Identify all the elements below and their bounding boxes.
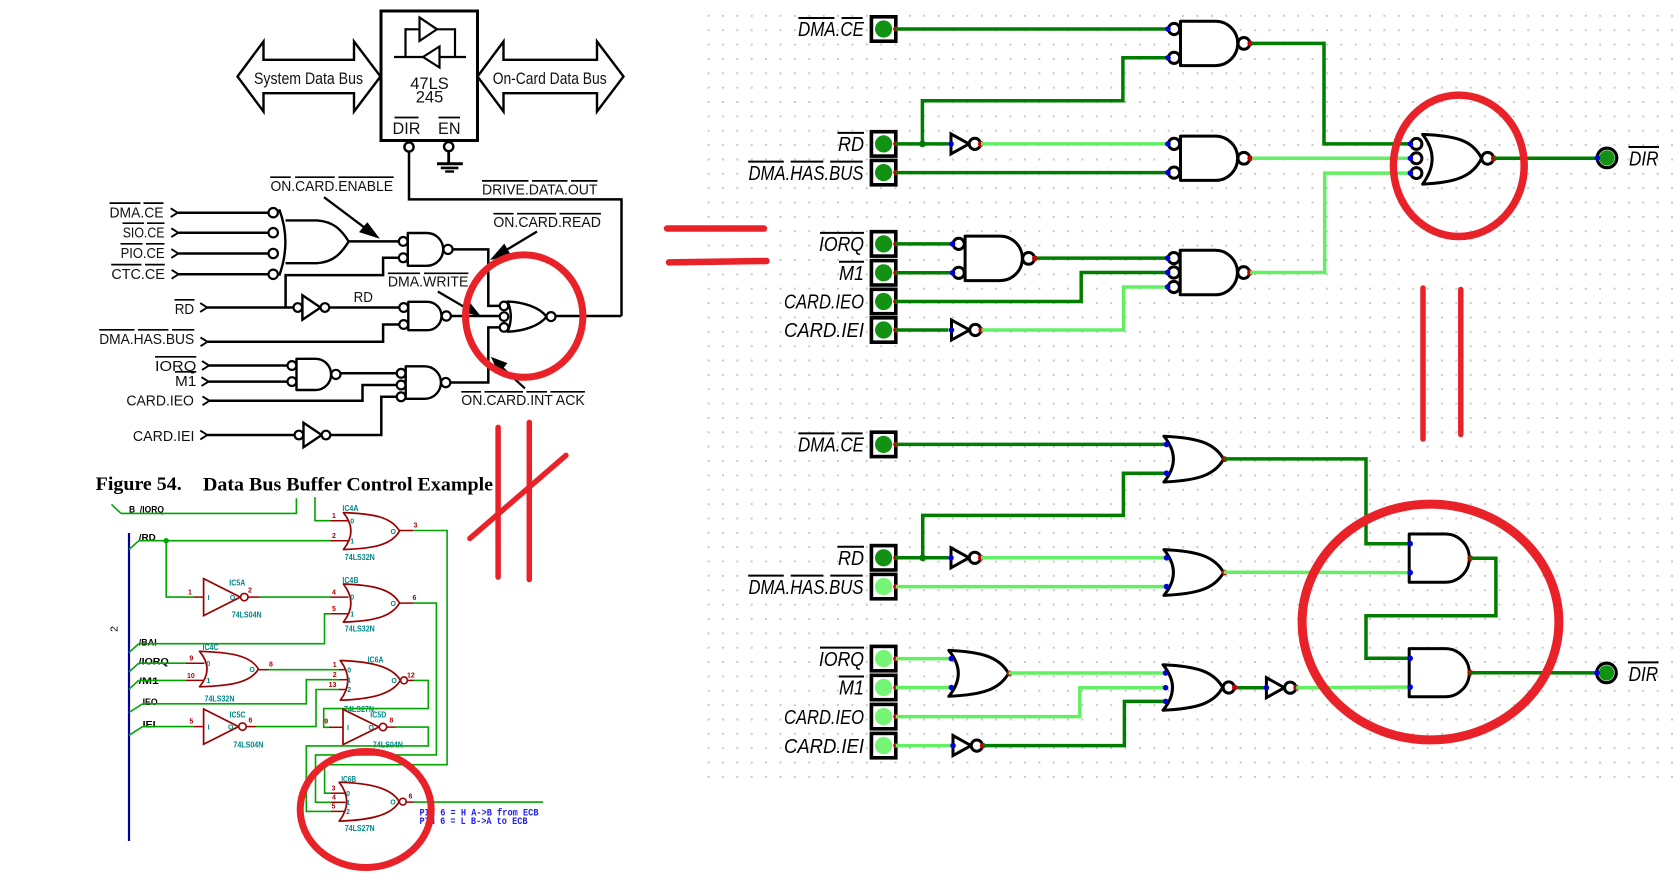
arrow from ON.CARD.ENABLE to gate G1 — [324, 197, 366, 229]
wire PIO.CE to OR G0 — [179, 252, 269, 255]
svg-text:ON.CARD.ENABLE: ON.CARD.ENABLE — [271, 178, 394, 195]
buffer B (B->A) inside U1 — [423, 47, 440, 68]
input node DMA.HAS.BUS (bottom) — [871, 574, 895, 598]
svg-text:DMA.WRITE: DMA.WRITE — [388, 274, 469, 291]
wire IC6A.12 to IC5D input route — [324, 680, 429, 727]
pin stub IC6B pin5 — [331, 810, 346, 812]
gate IC6A 74LS27N NOR — [340, 661, 400, 701]
gate IC4A 74LS32N OR — [343, 513, 399, 550]
svg-text:5: 5 — [331, 804, 335, 811]
pin EN bubble — [444, 142, 453, 151]
svg-text:I: I — [208, 724, 210, 731]
svg-text:Figure 54.: Figure 54. — [96, 474, 182, 495]
pin stub IC4A pin1 — [331, 520, 349, 522]
wire NOR T5 out to DIR (low) — [1494, 157, 1597, 161]
inverter T-INV1 (RD, top) — [951, 134, 969, 154]
junction on RD wire (bottom) — [919, 554, 926, 561]
gate T1 (DMA.CE NAND) (NAND with inverted inputs) — [1181, 21, 1238, 65]
wire U1 internal bottom — [394, 56, 466, 58]
wire inverter out to NOR B4 in3 (low) — [983, 701, 1168, 745]
input chevron DMA.HAS.BUS — [201, 337, 208, 346]
wire /M1 to IC4C pin 10 — [139, 679, 186, 681]
inverter B-INV1 (RD, bottom) — [951, 548, 969, 568]
svg-text:8: 8 — [389, 718, 393, 725]
pin stub IC4C pin8 output — [258, 669, 268, 671]
wire DMA.HAS.BUS to OR B2 in2 (high) — [896, 585, 1169, 589]
svg-text:CARD.IEO: CARD.IEO — [784, 707, 864, 729]
gate B7 (lower AND, circled) (AND) — [1409, 649, 1469, 697]
arrow from DMA.WRITE to gate G5 input — [438, 292, 466, 309]
svg-text:IC4C: IC4C — [203, 643, 219, 652]
NOR gate G6 (circled, drives DRIVE.DATA.OUT) — [500, 302, 509, 311]
wire IORQ to NAND G3 — [209, 364, 287, 367]
wire /RD branch to IC5A input — [166, 541, 193, 597]
wire NAND G5 output to NOR G6 input 2 — [451, 315, 500, 318]
wire AND B6 out to AND B7 in1 S-route (low) — [1366, 558, 1496, 658]
pin stub IC6B pin6 output — [406, 801, 414, 803]
wire NAND T1 out to NOR T5 in1 (low) — [1251, 43, 1412, 143]
svg-text:RD: RD — [838, 548, 864, 570]
wire RD branch to NAND T1 in2 (low) — [922, 58, 1167, 144]
input chevron IORQ — [202, 361, 209, 370]
wire NAND T4 out to NOR T5 in3 (high) — [1250, 173, 1412, 272]
svg-text:RD: RD — [354, 289, 373, 306]
svg-text:0: 0 — [350, 518, 354, 525]
pin stub IC4B pin5 — [331, 613, 349, 615]
svg-text:IC6A: IC6A — [368, 656, 384, 665]
svg-text:PIN 6 = L B->A to ECB: PIN 6 = L B->A to ECB — [420, 817, 528, 828]
ground symbol on EN — [447, 151, 450, 163]
gate B6 (upper AND, circled) (AND) — [1409, 534, 1469, 582]
wire NAND G1 output to NOR G6 input 1 — [452, 249, 499, 306]
pin stub IC4A pin3 output — [400, 530, 414, 532]
svg-text:On-Card Data Bus: On-Card Data Bus — [493, 69, 607, 88]
svg-text:RD: RD — [175, 301, 194, 318]
wire RD to inverter (low) — [896, 142, 949, 146]
svg-text:0: 0 — [346, 791, 350, 798]
wire RD branch to OR B1 in2 (low) — [923, 473, 1169, 558]
wire NAND G4 output to NOR G6 input 3 — [450, 327, 499, 382]
svg-text:74LS27N: 74LS27N — [345, 824, 375, 833]
svg-text:O: O — [391, 678, 397, 685]
NAND gate G3 — [297, 359, 332, 390]
wire DMA.CE to NAND T1 in1 (low) — [896, 27, 1168, 31]
svg-text:5: 5 — [189, 719, 193, 726]
wire CARD.IEI to inverter (low) — [896, 328, 949, 332]
svg-text:I: I — [208, 595, 210, 602]
svg-text:EN: EN — [438, 120, 461, 138]
arrow from ON.CARD.INT ACK to gate G5 input — [501, 367, 525, 389]
pin stub IC4B pin6 output — [400, 602, 414, 604]
gate IC6B 74LS27N NOR (circled) — [339, 782, 399, 821]
svg-text:DIR: DIR — [393, 120, 421, 138]
svg-text:DRIVE.DATA.OUT: DRIVE.DATA.OUT — [482, 181, 598, 198]
wire M1 to NAND T3 (low) — [896, 271, 952, 275]
svg-text:6: 6 — [249, 718, 253, 725]
svg-text:/M1: /M1 — [139, 676, 160, 687]
svg-text:6: 6 — [413, 595, 417, 602]
svg-text:IEO: IEO — [143, 697, 158, 708]
svg-text:0: 0 — [350, 595, 354, 602]
input node CARD.IEI (top) — [871, 318, 895, 342]
wire CARD.IEI to inverter G7 — [207, 434, 294, 437]
inverter IC5C 74LS04N — [204, 709, 239, 744]
svg-text:IEI: IEI — [143, 719, 156, 730]
svg-text:M1: M1 — [839, 678, 864, 700]
svg-text:O: O — [391, 601, 397, 608]
gate T4 (int ack NAND) (NAND with inverted inputs) — [1180, 250, 1237, 294]
svg-text:IORQ: IORQ — [819, 649, 864, 671]
inverter G7 (CARD.IEI) — [295, 431, 304, 440]
svg-text:System Data Bus: System Data Bus — [254, 69, 363, 88]
inverter B5 (inverter) — [1266, 678, 1284, 698]
wire IORQ to NAND T3 (low) — [896, 242, 952, 246]
svg-text:IC5A: IC5A — [229, 578, 245, 587]
svg-text:5: 5 — [332, 606, 336, 613]
svg-text:4: 4 — [332, 795, 336, 802]
input node IORQ (top) — [871, 232, 895, 256]
svg-text:CARD.IEO: CARD.IEO — [126, 393, 194, 410]
svg-text:74LS32N: 74LS32N — [345, 625, 375, 634]
wire U1 internal top-right — [437, 28, 455, 30]
svg-text:IC6B: IC6B — [341, 775, 356, 784]
buffer IC U1 47LS245 box — [381, 11, 478, 141]
inverter IC5D 74LS04N — [343, 709, 379, 744]
wire NOR B4 out to inverter B5 (low) — [1238, 686, 1266, 690]
svg-text:1: 1 — [188, 590, 192, 597]
pin stub IC5A input pin1 — [194, 596, 204, 598]
red equals sign between panels top bar — [667, 225, 764, 232]
wire RD branch up to NAND G1 input 2 — [286, 258, 399, 308]
svg-text:DMA.HAS.BUS: DMA.HAS.BUS — [749, 577, 864, 599]
svg-text:DMA.CE: DMA.CE — [798, 19, 864, 41]
pin stub IC5C input pin5 — [194, 726, 204, 728]
pin stub IC5D input pin9 — [329, 726, 343, 728]
wire inverter G2 to NAND G5 input 1 — [329, 306, 399, 309]
pin stub IC4C pin9 — [186, 662, 205, 664]
input chevron DMA.CE — [171, 208, 178, 217]
junction on /RD — [164, 538, 169, 543]
wire CARD.IEI to inverter (high) — [896, 744, 950, 748]
svg-text:DMA.CE: DMA.CE — [110, 204, 164, 221]
gate T3 (IORQ/M1 NAND) (NAND with inverted inputs) — [965, 236, 1022, 281]
svg-text:CARD.IEO: CARD.IEO — [784, 292, 864, 314]
svg-text:IC4A: IC4A — [342, 504, 358, 513]
red circle around NOR G6 — [466, 255, 583, 377]
red circle around AND B6/B7 — [1302, 504, 1559, 740]
wire CARD.IEO to NOR B4 in2 (high) — [896, 688, 1168, 717]
red equals sign between panels bottom bar — [669, 261, 767, 262]
pin stub IC6B pin4 — [331, 801, 346, 803]
svg-text:74LS04N: 74LS04N — [233, 740, 263, 749]
input chevron CARD.IEI — [200, 431, 207, 440]
svg-text:3: 3 — [331, 786, 335, 793]
red double-slash mark vertical 2 — [527, 422, 533, 579]
input node CARD.IEI (bottom) — [871, 733, 895, 757]
input node RD (bottom) — [871, 546, 895, 570]
pin stub IC4C pin10 — [186, 679, 205, 681]
svg-text:2: 2 — [346, 809, 350, 816]
wire inverter B5 out to AND B7 in2 (high) — [1296, 685, 1410, 689]
svg-text:DMA.CE: DMA.CE — [798, 435, 864, 457]
pin stub IC6A pin12 output — [407, 679, 414, 681]
NAND gate G1 (ON.CARD.ENABLE) — [408, 233, 443, 266]
svg-text:9: 9 — [189, 656, 193, 663]
input node DMA.CE (top) — [871, 17, 895, 41]
NAND gate G5 — [408, 302, 441, 330]
wire NAND T3 out to NAND T4 in1 (low) — [1037, 256, 1168, 260]
wire OR B3 out to NOR B4 in1 (high) — [1009, 671, 1168, 675]
output node DIR (bottom) — [1597, 663, 1617, 683]
wire U1 internal loop left — [404, 28, 406, 57]
svg-text:4: 4 — [332, 590, 336, 597]
input node M1 (bottom) — [871, 675, 895, 699]
input chevron CTC.CE — [172, 270, 179, 279]
svg-text:M1: M1 — [175, 373, 196, 390]
NAND gate G4 — [406, 366, 441, 399]
svg-text:RD: RD — [838, 134, 864, 156]
pin stub IC6A pin1 — [339, 669, 347, 671]
svg-text:PIO.CE: PIO.CE — [121, 245, 165, 262]
wire IC4B.6 to IC6B pin4 route — [316, 603, 437, 802]
OR gate G0 (chip enables) with inverting inputs — [269, 208, 278, 217]
input chevron M1 — [202, 377, 209, 386]
output node DIR (top) — [1597, 148, 1617, 168]
input chevron PIO.CE — [171, 249, 178, 258]
pin stub IC4B pin4 — [331, 596, 349, 598]
wire OR G0 output to NAND G1 — [349, 240, 399, 243]
svg-text:74LS04N: 74LS04N — [232, 610, 262, 619]
wire SIO.CE to OR G0 — [179, 231, 269, 234]
bus line (navy) — [128, 533, 130, 841]
input node DMA.CE (bottom) — [871, 432, 895, 456]
input node M1 (top) — [871, 261, 895, 285]
wire IC4A.3 to IC6B pin3 route — [325, 531, 448, 794]
svg-text:DIR: DIR — [1629, 149, 1659, 171]
svg-text:DMA.HAS.BUS: DMA.HAS.BUS — [749, 163, 864, 185]
svg-text:1: 1 — [206, 678, 210, 685]
svg-text:CARD.IEI: CARD.IEI — [133, 428, 195, 445]
pin stub IC6A pin13 — [339, 689, 347, 691]
red circle around IC6B — [300, 752, 431, 868]
input node IORQ (bottom) — [871, 646, 895, 670]
svg-text:CTC.CE: CTC.CE — [111, 266, 164, 283]
svg-text:1: 1 — [346, 800, 350, 807]
wire U1 internal top-left — [406, 28, 420, 30]
wire DMA.HAS.BUS to NAND T2 in2 (low) — [896, 171, 1168, 175]
svg-text:0: 0 — [347, 667, 351, 674]
svg-text:1: 1 — [350, 611, 354, 618]
input node CARD.IEO (bottom) — [871, 704, 895, 728]
wire DMA.CE to OR G0 — [178, 211, 269, 214]
wire NAND G3 output to NAND G4 input 1 — [340, 372, 396, 375]
svg-text:/IORQ: /IORQ — [139, 656, 170, 667]
wire /RD to IC4A pin 2 — [139, 540, 331, 542]
wire IC5C.6 to IC6A pin13 and IC6B pin4 rail — [256, 690, 339, 727]
svg-text:DIR: DIR — [1629, 664, 1659, 686]
wire IORQ to OR B3 (high) — [896, 657, 954, 661]
wire U1 internal loop right — [454, 28, 456, 57]
svg-text:O: O — [228, 724, 234, 731]
red circle around NOR T5 — [1393, 95, 1524, 236]
input chevron SIO.CE — [171, 228, 178, 237]
wire AND B7 out to DIR (low) — [1470, 671, 1597, 675]
svg-text:ON.CARD.INT ACK: ON.CARD.INT ACK — [461, 392, 585, 409]
wire NAND T2 out to NOR T5 in2 (high) — [1252, 157, 1412, 161]
bus arrow On-Card Data Bus — [478, 42, 624, 112]
svg-text:/RD: /RD — [139, 533, 156, 544]
wire inverter out to OR B2 in1 (high) — [981, 556, 1169, 560]
wire IEO to IC6A pin 2 — [143, 680, 339, 704]
svg-text:CARD.IEI: CARD.IEI — [784, 736, 864, 758]
svg-text:ON.CARD.READ: ON.CARD.READ — [493, 214, 601, 231]
red diagonal slash — [470, 455, 566, 538]
wire /IORQ to IC4C pin 9 — [139, 662, 186, 664]
gate B1 (DMA.CE OR) — [1164, 436, 1224, 482]
wire IEI to IC5C input — [143, 726, 194, 728]
svg-text:2: 2 — [332, 533, 336, 540]
gate B2 (RD OR) — [1164, 550, 1224, 596]
input chevron RD — [200, 303, 207, 312]
wire M1 to OR B3 (high) — [896, 686, 954, 690]
svg-text:SIO.CE: SIO.CE — [123, 224, 165, 241]
red parallel marks right panel vertical 2 — [1458, 290, 1464, 435]
svg-text:2: 2 — [333, 672, 337, 679]
svg-text:9: 9 — [324, 719, 328, 726]
wire inverter G7 to NAND G4 input 3 — [330, 397, 396, 435]
svg-text:O: O — [369, 725, 375, 732]
wire IC5A.2 to IC4B pin 4 — [260, 596, 331, 598]
svg-text:DMA.HAS.BUS: DMA.HAS.BUS — [99, 331, 194, 348]
input node CARD.IEO (top) — [871, 289, 895, 313]
gate IC4B 74LS32N OR — [343, 584, 399, 622]
svg-text:74LS32N: 74LS32N — [205, 694, 235, 703]
wire DIR pin to DRIVE.DATA.OUT net — [409, 152, 622, 316]
svg-text:IC4B: IC4B — [342, 576, 358, 585]
wire DMA.HAS.BUS to NAND G5 input 2 — [208, 325, 400, 342]
gate T2 (RD NAND) (NAND with inverted inputs) — [1181, 136, 1238, 180]
svg-text:IORQ: IORQ — [819, 234, 864, 256]
svg-text:IC5D: IC5D — [370, 710, 386, 719]
svg-text:3: 3 — [414, 523, 418, 530]
wire to IC4A pin 1 (from top) — [315, 497, 331, 521]
svg-text:2: 2 — [109, 626, 121, 632]
pin stub IC5D output pin8 — [387, 726, 396, 728]
gate B3 (IORQ/M1 OR) — [949, 650, 1009, 696]
wire NOR G6 output to DRIVE.DATA.OUT vertical — [556, 315, 622, 318]
svg-text:IC5C: IC5C — [230, 710, 246, 719]
pin stub IC6A pin2 — [339, 679, 347, 681]
svg-text:6: 6 — [409, 794, 413, 801]
wire CTC.CE to OR G0 — [179, 273, 269, 276]
wire M1 to NAND G3 — [209, 380, 288, 383]
arrow from ON.CARD.READ to node — [501, 232, 537, 254]
gate IC4C 74LS32N OR — [200, 651, 259, 687]
wire B_/IORQ — [121, 498, 296, 513]
wire RD to inverter (low) — [896, 556, 949, 560]
wire inverter out to NAND T4 in3 (high) — [982, 287, 1168, 330]
svg-text:8: 8 — [269, 662, 273, 669]
gate B4 (NOR) — [1163, 665, 1223, 710]
wire CARD.IEO to NAND G4 input 2 — [210, 385, 397, 401]
input node DMA.HAS.BUS (top) — [871, 160, 895, 184]
svg-text:1: 1 — [333, 662, 337, 669]
svg-text:O: O — [249, 667, 255, 674]
pin stub IC6B pin3 — [331, 792, 346, 794]
wire OR B1 out to AND B6 in1 (low) — [1224, 459, 1410, 544]
inverter B-INV2 (CARD.IEI, bottom) — [953, 736, 971, 756]
wire CARD.IEO to NAND T4 in2 (low) — [896, 273, 1168, 302]
inverter IC5A 74LS04N — [204, 579, 241, 616]
svg-text:2: 2 — [347, 687, 351, 694]
pin stub IC5A output pin2 — [248, 596, 260, 598]
svg-text:13: 13 — [329, 682, 337, 689]
inverter G2 (RD) — [294, 303, 303, 312]
wire inverter out to NAND T2 in1 (high) — [981, 142, 1167, 146]
wire DMA.CE to OR B1 in1 (low) — [896, 443, 1169, 447]
svg-text:74LS04N: 74LS04N — [373, 740, 403, 749]
svg-text:2: 2 — [248, 588, 252, 595]
svg-text:O: O — [230, 595, 236, 602]
wire /BAI to IC4B pin 5 — [139, 614, 331, 644]
junction on RD wire — [919, 141, 926, 148]
svg-text:O: O — [390, 799, 396, 806]
svg-text:CARD.IEI: CARD.IEI — [784, 320, 864, 342]
wire IC4C.8 to IC6A pin 1 — [268, 669, 339, 671]
svg-text:Data Bus Buffer Control Exampl: Data Bus Buffer Control Example — [203, 475, 493, 496]
svg-text:1: 1 — [350, 538, 354, 545]
bus arrow System Data Bus — [238, 42, 381, 112]
red double-slash mark vertical 1 — [495, 427, 501, 577]
gate T5 (output NOR, circled) (NOR with inverted inputs) — [1423, 134, 1482, 184]
wire IC5D.8 to IC6B pin5 route — [306, 727, 428, 811]
svg-text:O: O — [391, 529, 397, 536]
svg-text:1: 1 — [332, 513, 336, 520]
svg-text:0: 0 — [206, 661, 210, 668]
input chevron CARD.IEO — [203, 396, 210, 405]
wire OR B2 out to AND B6 in2 (high) — [1224, 570, 1410, 574]
svg-text:10: 10 — [187, 673, 195, 680]
input node RD (top) — [871, 132, 895, 156]
pin stub IC4A pin2 — [331, 540, 349, 542]
pin DIR bubble — [404, 142, 413, 151]
svg-text:1: 1 — [347, 677, 351, 684]
red parallel marks right panel vertical 1 — [1420, 288, 1426, 439]
svg-text:I: I — [347, 725, 349, 732]
buffer A (A->B) inside U1 — [420, 18, 438, 42]
wire RD input to inverter G2 — [207, 306, 293, 309]
svg-text:12: 12 — [407, 673, 415, 680]
svg-text:M1: M1 — [839, 263, 864, 285]
inverter T-INV2 (CARD.IEI, top) — [952, 320, 970, 340]
svg-text:74LS32N: 74LS32N — [345, 553, 375, 562]
svg-text:245: 245 — [416, 89, 444, 107]
wire IC6B.6 output to right — [414, 801, 543, 803]
pin stub IC5C output pin6 — [246, 726, 256, 728]
